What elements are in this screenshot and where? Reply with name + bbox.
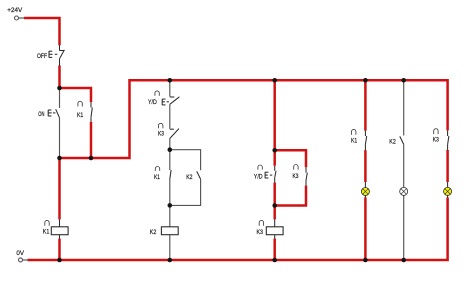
svg-text:Y/D: Y/D <box>254 173 263 180</box>
svg-text:K3: K3 <box>158 131 164 138</box>
svg-text:Y/D: Y/D <box>148 99 157 106</box>
svg-text:K1: K1 <box>154 174 160 181</box>
svg-text:K2: K2 <box>389 139 396 146</box>
svg-text:0V: 0V <box>16 250 24 257</box>
svg-text:ON: ON <box>38 111 44 118</box>
svg-text:K1: K1 <box>351 138 357 145</box>
svg-text:OFF: OFF <box>37 53 47 60</box>
svg-text:K3: K3 <box>433 136 439 143</box>
svg-text:K3: K3 <box>257 229 264 236</box>
svg-text:K2: K2 <box>186 174 192 181</box>
svg-text:+24V: +24V <box>7 7 22 14</box>
svg-text:K1: K1 <box>43 229 50 236</box>
svg-text:K1: K1 <box>77 112 83 119</box>
svg-text:K2: K2 <box>150 229 157 236</box>
svg-text:K3: K3 <box>293 173 299 180</box>
